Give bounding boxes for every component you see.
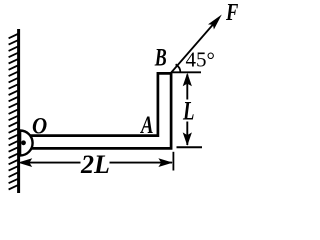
dimension L down arrowhead	[183, 132, 192, 145]
bar OAB (L-shaped rod)	[21, 73, 171, 148]
svg-text:2L: 2L	[80, 150, 110, 179]
svg-text:A: A	[140, 112, 154, 139]
dimension 2L right arrowhead	[158, 158, 172, 167]
svg-text:L: L	[182, 97, 194, 126]
dimension 2L line right segment	[110, 162, 173, 164]
pivot dot O	[21, 140, 26, 145]
pin support semicircle at O	[20, 131, 33, 156]
dimension L line lower segment	[186, 122, 188, 146]
force F arrowhead	[208, 15, 222, 30]
tick line below L dimension	[177, 146, 203, 148]
svg-text:O: O	[32, 114, 47, 139]
dimension 2L line left segment	[21, 162, 81, 164]
45 degree arc	[176, 64, 181, 72]
dimension L line upper segment	[186, 75, 188, 100]
extension line below corner A	[172, 152, 174, 171]
svg-text:B: B	[154, 45, 167, 72]
svg-text:F: F	[225, 0, 238, 26]
force F line	[171, 21, 217, 74]
dimension 2L left arrowhead	[18, 158, 32, 167]
svg-text:45°: 45°	[186, 48, 215, 72]
wall hatching	[9, 34, 19, 190]
horizontal reference line at B	[171, 71, 201, 73]
dimension L up arrowhead	[183, 73, 192, 87]
wall line	[17, 29, 20, 193]
